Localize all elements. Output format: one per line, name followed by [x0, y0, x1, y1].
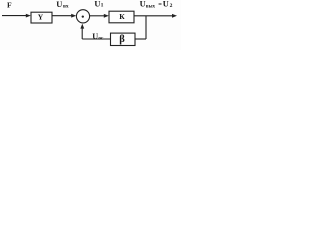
- svg-text:U: U: [94, 0, 100, 8]
- svg-text:Y: Y: [38, 13, 44, 22]
- svg-text:β: β: [119, 34, 125, 45]
- svg-text:1: 1: [101, 3, 104, 9]
- svg-text:вых: вых: [146, 4, 156, 9]
- svg-text:U: U: [140, 0, 146, 9]
- svg-text:U: U: [92, 32, 98, 41]
- svg-text:F: F: [7, 1, 12, 10]
- svg-text:К: К: [119, 12, 125, 21]
- svg-text:U: U: [56, 0, 62, 9]
- svg-text:2: 2: [170, 3, 173, 9]
- svg-text:вх: вх: [63, 3, 69, 9]
- svg-text:U: U: [163, 0, 169, 9]
- svg-text:=: =: [158, 1, 162, 8]
- svg-text:ос: ос: [98, 35, 104, 41]
